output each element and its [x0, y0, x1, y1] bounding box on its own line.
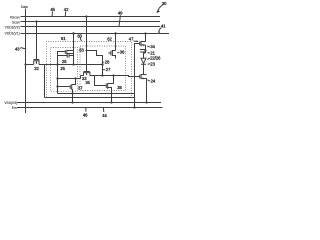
wire diode feed	[144, 53, 146, 58]
node T31-W1 junction	[72, 63, 74, 65]
node 58-86.8 junction	[56, 85, 58, 87]
node y75-T38 junction	[112, 74, 114, 76]
label 30 arrow	[158, 5, 163, 11]
wire KScan bus	[21, 16, 161, 18]
svg-text:Em: Em	[12, 106, 17, 110]
svg-text:VSS(V3): VSS(V3)	[4, 101, 17, 105]
svg-text:43: 43	[15, 46, 20, 51]
wire Em bus	[17, 107, 163, 109]
wire T31 gate	[58, 52, 66, 94]
node T38 vss junction	[110, 101, 112, 103]
label 27 leader	[103, 69, 105, 71]
wire T34 drain down	[145, 45, 147, 53]
svg-text:61: 61	[61, 36, 66, 41]
node Em junction	[133, 106, 135, 108]
svg-text:26: 26	[62, 59, 67, 64]
label 21 leader	[148, 52, 150, 54]
wire W1 left	[26, 64, 34, 66]
svg-text:34: 34	[150, 44, 155, 49]
capacitor C26	[58, 54, 74, 58]
wire data line	[25, 9, 27, 114]
node x102-75 junction	[101, 74, 103, 76]
wire KScan gate drop	[86, 17, 88, 72]
svg-text:25: 25	[60, 66, 65, 71]
label 24 leader	[148, 80, 151, 81]
svg-text:60: 60	[77, 33, 82, 38]
svg-text:47: 47	[129, 37, 134, 42]
wire bottom rail low	[45, 97, 135, 99]
node VDD1 junction right	[114, 32, 116, 34]
wire T37 gate	[58, 86, 70, 88]
svg-text:VDD2(V2): VDD2(V2)	[5, 25, 20, 29]
label 49 leader	[119, 15, 120, 26]
svg-text:30: 30	[162, 1, 167, 6]
dashed box 60	[47, 42, 132, 98]
node KScan junction	[85, 15, 87, 17]
label 36 leader	[117, 51, 119, 54]
node T24 vss junction	[145, 101, 147, 103]
dashed box 61	[51, 48, 78, 92]
svg-text:62: 62	[107, 36, 112, 41]
label 44 leader	[102, 108, 104, 112]
transistor T37	[70, 79, 75, 94]
node 58-78.5 junction	[56, 77, 58, 79]
transistor T31	[65, 50, 73, 55]
svg-text:28: 28	[105, 60, 110, 65]
node data-W1 junction	[24, 63, 26, 65]
svg-text:35: 35	[85, 80, 90, 85]
svg-text:VDD1(V1): VDD1(V1)	[5, 31, 20, 35]
wire scan gate drop	[36, 22, 38, 60]
node T37 vss junction	[71, 101, 73, 103]
wire y75 right	[103, 76, 140, 84]
svg-text:24: 24	[151, 79, 156, 84]
node T37 top junction	[74, 77, 76, 79]
svg-text:27: 27	[106, 67, 111, 72]
label 60 leader	[80, 38, 82, 42]
wire W1 mid	[39, 64, 103, 66]
wire VDD2 bus	[21, 26, 161, 28]
transistor T38	[106, 83, 113, 103]
svg-text:23: 23	[150, 61, 155, 66]
wire VDD1 drop to T36	[115, 34, 117, 51]
wire branch down from W1	[44, 65, 46, 98]
label 34 leader	[147, 46, 150, 47]
label 41 arrow	[159, 28, 162, 32]
svg-text:49: 49	[118, 10, 123, 15]
svg-text:32: 32	[34, 66, 39, 71]
wire VSS bus	[17, 102, 161, 104]
svg-text:41: 41	[161, 23, 166, 28]
node W1-58 junction	[56, 63, 58, 65]
node T34 vdd junction	[144, 32, 146, 34]
svg-text:42: 42	[64, 7, 69, 12]
transistor T32	[33, 60, 39, 65]
transistor T36	[108, 50, 115, 59]
node T34 drain junction	[144, 49, 146, 51]
svg-text:Data: Data	[21, 5, 28, 9]
wire T33 left foot drop	[76, 76, 81, 79]
node rail-T37 junction	[71, 92, 73, 94]
wire VDD1 bus	[21, 33, 170, 35]
wire bottom rail mid	[58, 93, 135, 95]
label 46 leader	[85, 108, 87, 112]
label 22 leader	[147, 58, 150, 60]
transistor T33	[81, 72, 103, 76]
label 23 leader	[148, 63, 150, 66]
label 28 leader	[103, 61, 104, 63]
svg-text:46: 46	[83, 112, 88, 117]
svg-text:37: 37	[78, 86, 83, 91]
node VDD1 junction left	[72, 32, 74, 34]
transistor T34	[140, 34, 146, 47]
svg-text:22/26: 22/26	[150, 56, 161, 61]
diode OLED	[141, 58, 146, 64]
wire mid top y54.4	[87, 51, 103, 76]
node x102-W1 junction	[101, 63, 103, 65]
svg-text:63: 63	[79, 48, 84, 53]
transistor T24	[131, 74, 147, 103]
wire Scan bus	[21, 21, 161, 23]
wire y78.5	[58, 78, 76, 80]
wire OLED cathode	[143, 64, 145, 74]
label 45 leader	[51, 12, 54, 17]
dashed box 62	[80, 46, 126, 90]
svg-text:36: 36	[120, 49, 125, 54]
label 43 leader	[20, 47, 25, 50]
wire T34 gate	[135, 44, 140, 108]
svg-text:Scan: Scan	[12, 20, 20, 24]
svg-text:38: 38	[117, 85, 122, 90]
wire T33 right foot drop	[95, 76, 107, 86]
capacitor OLED contact plates	[140, 50, 146, 53]
svg-text:KScan: KScan	[10, 15, 20, 19]
wire T37 to VSS	[72, 94, 74, 103]
wire VDD1 drop to T31 and down to W1	[73, 34, 75, 65]
node scan junction	[35, 20, 37, 22]
svg-text:44: 44	[102, 113, 107, 118]
svg-text:45: 45	[50, 7, 55, 12]
label 42 leader	[64, 12, 67, 17]
label 47 arrow	[134, 40, 137, 42]
